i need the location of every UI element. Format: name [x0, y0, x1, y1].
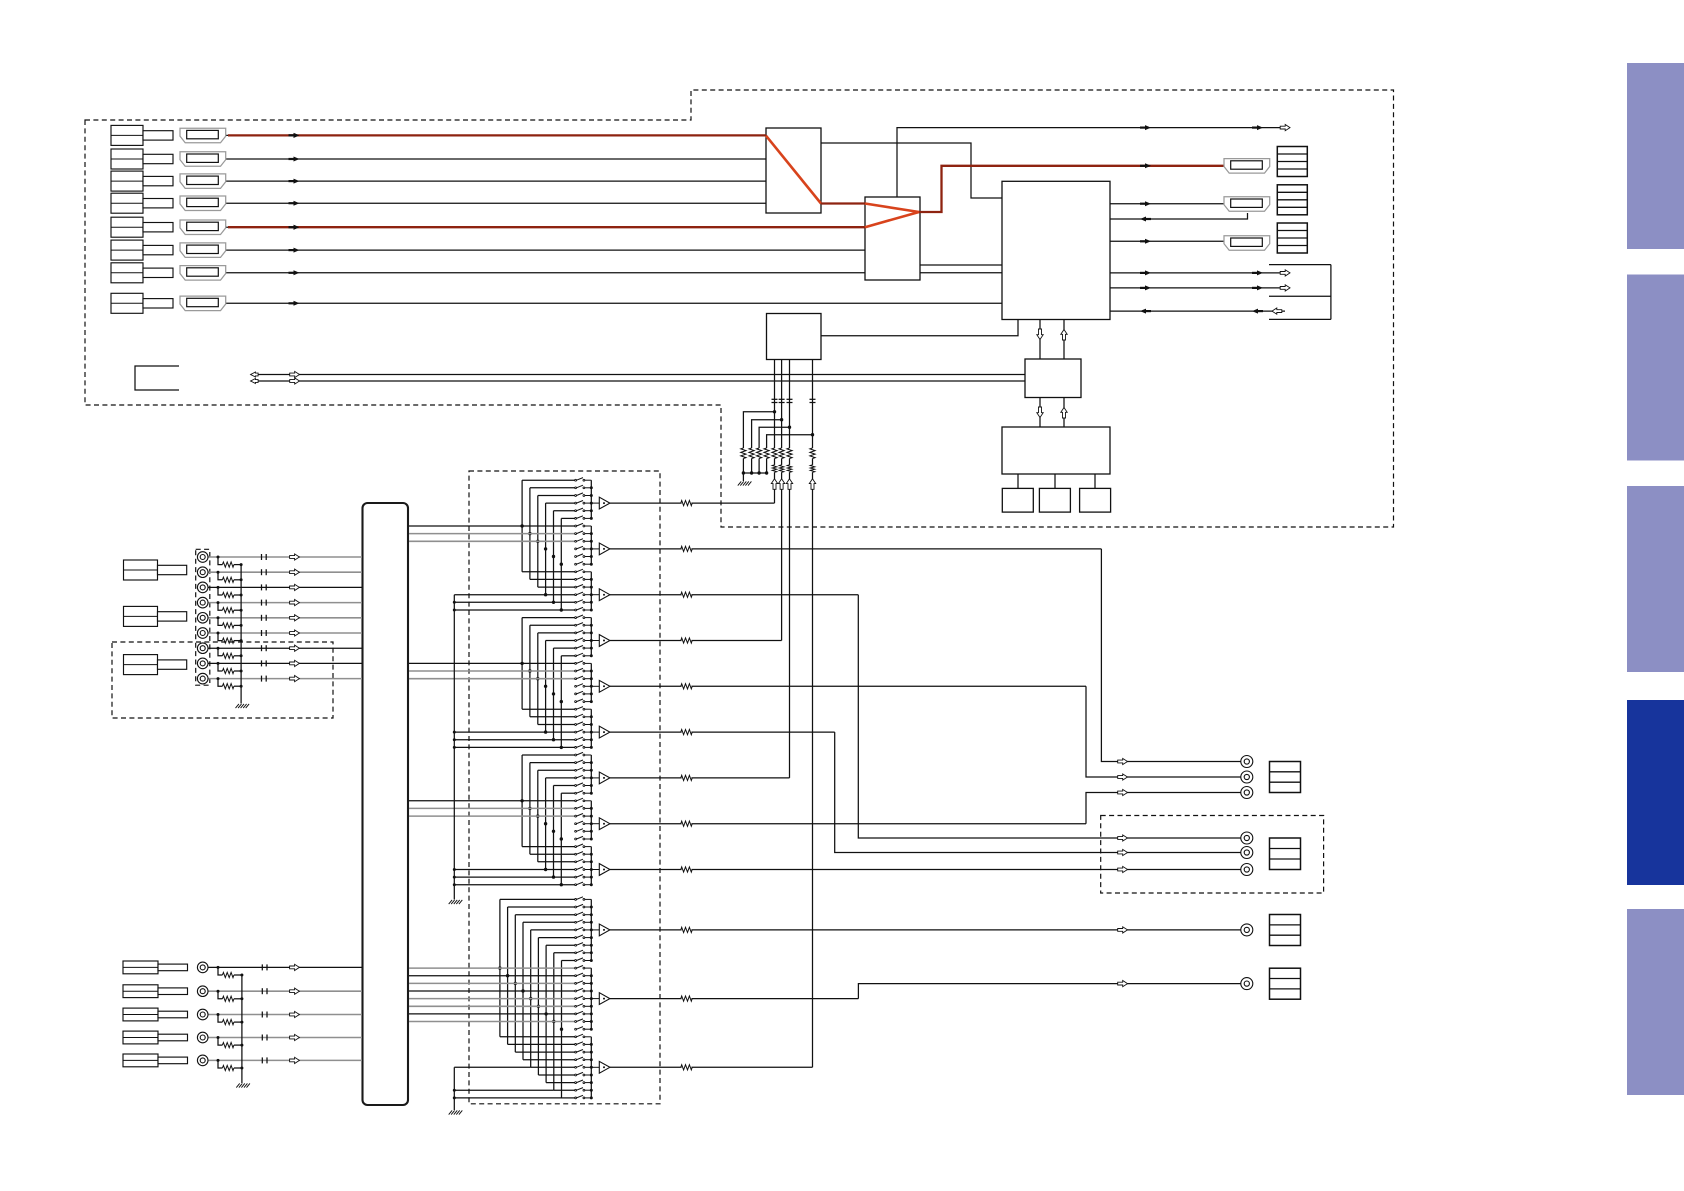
junction RCA 3: [217, 586, 220, 589]
arrow RCA aux input 5: [290, 1057, 300, 1063]
junction shunt bus aux 4: [240, 1044, 243, 1047]
arrow on HDMI input wire 2: [294, 157, 300, 162]
page tab 1: [1627, 63, 1684, 249]
coupling cap ticks RCA 3: [261, 584, 263, 590]
arrow RCA input 2: [290, 569, 300, 575]
label box HDMI out 1: [1277, 147, 1307, 177]
ground GND5: [449, 1110, 452, 1114]
pull-down resistor R11: [741, 448, 746, 459]
junction RCA 7: [217, 647, 220, 650]
arrow ctrl3 b: [1252, 309, 1258, 314]
arrow bus wire 2 open: [290, 378, 300, 384]
HDMI input jack 8: [180, 296, 226, 311]
wire trunk feed block2.1: [409, 662, 575, 664]
arrow output zone L: [1118, 835, 1128, 841]
wire RCA input 6 to trunk: [208, 632, 362, 634]
HDMI output jack 3: [1224, 236, 1270, 251]
shunt resistor RCA 8: [222, 668, 234, 673]
wire A5 route down: [1086, 686, 1241, 777]
shunt resistor RCA 2: [222, 577, 234, 582]
dashed enclosure aux input group: [112, 642, 333, 718]
hook wire lower col7: [545, 945, 547, 1082]
arrow on red input wire 5: [294, 225, 300, 230]
label box zone output: [1270, 838, 1301, 870]
wire RCA 2 shunt: [218, 572, 222, 580]
selector bus group 7: [590, 755, 592, 793]
shunt resistor RCA 9: [222, 684, 234, 689]
wire RCA 6 shunt: [218, 633, 222, 641]
HDMI input connector row 3 rear terminal: [111, 171, 143, 191]
RCA jack IN1: [197, 552, 208, 563]
wire trunk feed lower 4: [409, 990, 575, 992]
arrow RCA aux input 2: [290, 988, 300, 994]
HDMI input connector row 1 rear terminal: [111, 125, 143, 145]
rear terminal group B4: [123, 1031, 158, 1044]
wire U3 to HDMI out 2: [1110, 203, 1224, 205]
ground bus wire: [743, 472, 766, 474]
series resistor R32: [779, 465, 783, 472]
arrow up on buffer column 3: [786, 479, 792, 490]
selector bus group 2: [590, 526, 592, 564]
wire ground feed lower r27: [454, 1097, 561, 1099]
arrow RCA input 6: [290, 630, 300, 636]
buffer A7 output to column 3: [610, 777, 682, 779]
selector bus group 4: [590, 618, 592, 656]
wire RCA 7 shunt: [218, 648, 222, 656]
hook wire block3 col4: [545, 778, 547, 870]
block U4 level shifter: [1025, 359, 1081, 398]
RCA jack AUX1: [197, 962, 208, 973]
selector bus group 1: [590, 480, 592, 518]
block U2 HDMI switch B: [865, 197, 920, 280]
RCA jack IN5: [197, 613, 208, 624]
ground GND3: [236, 1083, 239, 1087]
wire HDMI input 2: [226, 158, 766, 160]
RCA output jack main 3: [1241, 787, 1253, 799]
buffer A9 output wire: [610, 869, 682, 871]
jumper tick pair on U6 pin 3: [787, 398, 793, 400]
wire HDMI input 1: [226, 134, 766, 136]
hook wire block1 col1: [521, 480, 523, 572]
junction RCA aux 2: [217, 990, 220, 993]
hook wire block2 col4: [545, 641, 547, 733]
junction shunt bus 3: [240, 594, 243, 597]
label box HDMI out 2: [1277, 185, 1307, 215]
HDMI input jack 2: [180, 152, 226, 167]
arrow output C: [1118, 789, 1128, 795]
wire A6 route down: [835, 732, 1241, 852]
coupling cap ticks RCA 8: [261, 660, 263, 666]
arrow RCA input 9: [290, 676, 300, 682]
ground GND1: [738, 481, 741, 485]
coupling cap ticks RCA 5: [261, 615, 263, 621]
buffer A2 output wire: [610, 548, 682, 550]
rear terminal group B1: [123, 961, 158, 974]
wire down to buffer column 2: [781, 472, 783, 640]
arrow ctrl3 open: [1272, 308, 1282, 314]
junction shunt bus 1: [240, 563, 243, 566]
red path diagonal B upper: [865, 204, 919, 213]
shunt resistor RCA aux 5: [222, 1065, 234, 1070]
junction shunt bus 9: [240, 685, 243, 688]
hook wire block3 col3: [537, 770, 539, 862]
arrow ctrl1 open: [1280, 270, 1290, 276]
shunt resistor RCA 5: [222, 623, 234, 628]
ground GND4: [449, 900, 452, 904]
wire ground feed block1.3: [454, 609, 575, 611]
coupling cap ticks aux 3: [261, 1012, 263, 1018]
hook wire block1 col3: [537, 496, 539, 588]
component X2: [1039, 488, 1070, 512]
arrow RCA input 4: [290, 600, 300, 606]
RCA output jack zone 3: [1241, 864, 1253, 876]
wire U3 control out 1: [1110, 272, 1285, 274]
arrow bus wire 1 open: [290, 371, 300, 377]
ground riser selector upper: [453, 595, 455, 900]
arrow bus wire 1 left tip: [251, 372, 259, 377]
shunt resistor RCA 6: [222, 638, 234, 643]
arrow RCA aux input 3: [290, 1011, 300, 1017]
arrow RCA aux input 4: [290, 1034, 300, 1040]
wire ground feed block3.2: [454, 876, 575, 878]
arrow up on buffer column 1: [771, 479, 777, 490]
signal trunk bundle: [363, 503, 409, 1105]
junction ground bus: [742, 471, 745, 474]
rear terminal group B2: [123, 985, 158, 998]
junction ground bus: [750, 471, 753, 474]
wire B2 route up: [858, 984, 1240, 999]
selector bus lower group 2: [590, 968, 592, 1029]
selector bus group 5: [590, 663, 592, 701]
wire HDMI repeater U2 top to DDC output: [897, 128, 1285, 197]
wire to pull-down resistor 3: [759, 427, 789, 448]
hook wire lower col2: [507, 907, 509, 1044]
arrow ctrl2 a: [1145, 285, 1151, 290]
RCA output jack zone 2: [1241, 847, 1253, 859]
arrow RCA input 8: [290, 660, 300, 666]
arrow RCA input 7: [290, 645, 300, 651]
wire U3 to U4 down-left: [1039, 320, 1041, 360]
buffer amp B3: [599, 1061, 610, 1073]
arrow ctrl1 b: [1257, 270, 1263, 275]
wire U6 to U3 bottom: [821, 320, 1018, 336]
shunt resistor RCA 3: [222, 592, 234, 597]
selector bus group 6: [590, 709, 592, 747]
selector switch contacts upper: [575, 478, 592, 886]
red path diagonal B lower: [865, 212, 919, 227]
red path HDMI5 to switch B: [228, 226, 865, 228]
wire RCA aux input 1 to trunk: [208, 966, 362, 968]
arrow output zone R: [1118, 849, 1128, 855]
wire box A to IC U3 (video): [821, 143, 1002, 198]
junction shunt bus 7: [240, 654, 243, 657]
wire down to buffer column 1: [774, 472, 776, 503]
pull-down resistor R12: [749, 448, 754, 459]
shunt resistor RCA 1: [222, 562, 234, 567]
junction RCA 1: [217, 556, 220, 559]
wire U3 control out 2: [1110, 287, 1285, 289]
wire ground feed block1.2: [454, 601, 575, 603]
junction on U6 pin 2: [780, 418, 783, 421]
wire ground feed lower r26: [454, 1089, 554, 1091]
junction shunt bus aux 1: [240, 974, 243, 977]
arrow up on buffer column 2: [778, 479, 784, 490]
hook wire block2 col5: [553, 648, 555, 740]
RCA jack IN9: [197, 673, 208, 684]
rear terminal group B5: [123, 1054, 158, 1067]
junction RCA 9: [217, 677, 220, 680]
rear terminal group 1: [124, 560, 158, 580]
block U5 HDMI receiver PHY: [1002, 427, 1110, 474]
series resistor R31: [772, 465, 776, 472]
wire trunk feed block1.1: [409, 525, 575, 527]
hook wire lower col6: [537, 938, 539, 1075]
buffer amp A3: [599, 589, 610, 601]
wire RCA input 4 to trunk: [208, 602, 362, 604]
wire trunk feed lower 8: [409, 1021, 575, 1023]
arrow on HDMI input wire 5: [294, 225, 300, 230]
arrow output zone C: [1118, 866, 1128, 872]
wire A8 route up: [1086, 793, 1241, 824]
buffer amp A8: [599, 818, 610, 830]
wire to pull-down resistor 2: [752, 420, 782, 448]
wire trunk feed block3.2: [409, 807, 575, 809]
wire RCA aux input 5 to trunk: [208, 1059, 362, 1061]
hook wire block1 col6: [560, 518, 562, 610]
wire U6 pin 2 vertical: [781, 360, 783, 449]
wire RCA 4 shunt: [218, 603, 222, 611]
wire RCA aux input 2 to trunk: [208, 990, 362, 992]
hook wire block3 col5: [553, 786, 555, 878]
wire U4 to U5 up: [1063, 398, 1065, 428]
wire U3 control in 3: [1110, 310, 1285, 312]
arrow on HDMI input wire 3: [294, 179, 300, 184]
wire A3 route down: [858, 595, 1240, 838]
wire trunk feed block1.3: [409, 540, 575, 542]
coupling cap ticks RCA 9: [261, 676, 263, 682]
wire A2 route down: [1101, 549, 1240, 762]
arrow U4-U5 down: [1037, 407, 1043, 418]
buffer A3 output wire: [610, 594, 682, 596]
buffer amp A5: [599, 680, 610, 692]
coupling cap ticks RCA 2: [261, 569, 263, 575]
wire down to buffer column 4: [812, 472, 814, 1067]
wire down to buffer column 3: [789, 472, 791, 778]
coupling cap ticks aux 1: [261, 964, 263, 970]
wire U3 to HDMI out 3: [1110, 240, 1224, 242]
shunt resistor RCA aux 3: [222, 1020, 234, 1025]
junction RCA 8: [217, 662, 220, 665]
selector bus group 3: [590, 572, 592, 610]
wire RCA 8 shunt: [218, 663, 222, 671]
series resistor R33: [787, 465, 791, 472]
buffer amp A7: [599, 772, 610, 784]
wire HDMI input 4: [226, 202, 766, 204]
junction shunt bus 2: [240, 578, 243, 581]
wire trunk feed lower 7: [409, 1013, 575, 1015]
buffer amp A2: [599, 543, 610, 555]
buffer amp A1: [599, 497, 610, 509]
arrow ctrl1 a: [1145, 270, 1151, 275]
wire RCA aux input 3 to trunk: [208, 1014, 362, 1016]
coupling cap ticks aux 5: [261, 1057, 263, 1063]
buffer A8 output wire: [610, 823, 682, 825]
wire trunk feed block2.2: [409, 670, 575, 672]
wire RCA 9 shunt: [218, 679, 222, 687]
HDMI input jack 4: [180, 196, 226, 211]
wire trunk feed block3.1: [409, 800, 575, 802]
hook wire block3 col2: [529, 763, 531, 855]
wire RCA input 1 to trunk: [208, 556, 362, 558]
red path A to B: [821, 202, 865, 204]
buffer A1 output to column 1: [610, 502, 682, 504]
wire HDMI out 2 return: [1110, 213, 1248, 219]
coupling cap ticks aux 2: [261, 988, 263, 994]
arrow HDMI2 return: [1140, 217, 1146, 222]
wire HDMI input 5: [226, 226, 865, 228]
wire U6 pin 4 vertical: [812, 360, 814, 449]
page tab 3: [1627, 486, 1684, 672]
component X1: [1002, 488, 1033, 512]
hook wire block1 col2: [529, 488, 531, 580]
rear terminal group 3: [124, 655, 158, 675]
HDMI input connector row 5 rear terminal: [111, 217, 143, 237]
page tab 2: [1627, 275, 1684, 461]
RCA jack IN2: [197, 567, 208, 578]
wire RCA input 5 to trunk: [208, 617, 362, 619]
arrow U3-U4 down: [1037, 329, 1043, 340]
junction shunt bus 5: [240, 624, 243, 627]
coupling cap ticks RCA 7: [261, 645, 263, 651]
buffer B3 output to column 4: [610, 1066, 682, 1068]
wire RCA aux 2 shunt: [218, 991, 222, 999]
RCA output jack mono 1: [1241, 924, 1253, 936]
wire RCA input 9 to trunk: [208, 678, 362, 680]
junction shunt bus 4: [240, 609, 243, 612]
arrow output L: [1118, 758, 1128, 764]
buffer B1 output wire: [610, 929, 682, 931]
wire RCA 5 shunt: [218, 618, 222, 626]
red path B to HDMI out: [919, 166, 1224, 212]
wire HDMI input 7: [226, 272, 1002, 274]
shunt resistor RCA aux 1: [222, 972, 234, 977]
dashed enclosure RCA jack column: [196, 549, 210, 685]
wire RCA aux 3 shunt: [218, 1015, 222, 1023]
HDMI output jack 2: [1224, 197, 1270, 212]
junction RCA 5: [217, 616, 220, 619]
RCA output jack zone 1: [1241, 832, 1253, 844]
RCA jack AUX2: [197, 986, 208, 997]
wire RCA aux 4 shunt: [218, 1038, 222, 1046]
wire ground feed block1.1: [454, 594, 575, 596]
RCA jack AUX3: [197, 1009, 208, 1020]
junction RCA aux 1: [217, 966, 220, 969]
buffer A4 output to column 2: [610, 640, 682, 642]
hook wire lower col4: [522, 922, 524, 1059]
wire ground feed block3.1: [454, 869, 575, 871]
RCA jack IN8: [197, 658, 208, 669]
arrow ctrl2 open: [1280, 285, 1290, 291]
arrow RCA input 1: [290, 554, 300, 560]
page tab 5: [1627, 909, 1684, 1095]
wire to pull-down resistor 1: [743, 412, 774, 448]
wire RCA 3 shunt: [218, 587, 222, 595]
wire RCA input 8 to trunk: [208, 662, 362, 664]
wire ground feed block3.3: [454, 884, 575, 886]
pull-down resistor R13: [757, 448, 762, 459]
arrow DDC open tip: [1280, 125, 1290, 131]
arrow RCA aux input 1: [290, 964, 300, 970]
label box mono 2: [1270, 968, 1301, 999]
pull-down resistor R14: [764, 448, 769, 459]
wire RCA aux 1 shunt: [218, 967, 222, 975]
label box main output: [1270, 762, 1301, 793]
junction shunt bus 6: [240, 639, 243, 642]
arrow on HDMI input wire 1: [294, 133, 300, 138]
RCA jack AUX4: [197, 1032, 208, 1043]
wire U6 pin 1 vertical: [774, 360, 776, 449]
label box HDMI out 3: [1277, 223, 1307, 253]
wire ground feed lower r23: [454, 1066, 530, 1068]
buffer amp A4: [599, 635, 610, 647]
wire trunk feed lower 3: [409, 982, 575, 984]
arrow on HDMI input wire 4: [294, 201, 300, 206]
wire trunk feed lower 2: [409, 975, 575, 977]
wire RCA aux input 4 to trunk: [208, 1037, 362, 1039]
buffer amp A6: [599, 726, 610, 738]
junction shunt bus aux 2: [240, 997, 243, 1000]
label box mono 1: [1270, 915, 1301, 946]
wire U3 to U4 up-right: [1063, 320, 1065, 360]
junction RCA 2: [217, 571, 220, 574]
junction RCA aux 3: [217, 1013, 220, 1016]
selector bus lower group 1: [590, 899, 592, 960]
shunt resistor RCA aux 4: [222, 1043, 234, 1048]
arrow output sub 1: [1118, 927, 1128, 933]
block U3 HDMI transmitter: [1002, 181, 1110, 319]
wire HDMI input 8: [226, 302, 1002, 304]
shunt resistor RCA 7: [222, 653, 234, 658]
arrow ctrl2 b: [1257, 285, 1263, 290]
wire HDMI input 6: [226, 249, 865, 251]
arrow U3-HDMI3: [1145, 239, 1151, 244]
HDMI input jack 5: [180, 220, 226, 235]
wire ground feed block2.1: [454, 731, 575, 733]
open header connector: [135, 366, 179, 390]
arrow on red input wire 1: [294, 133, 300, 138]
shunt resistor RCA aux 2: [222, 996, 234, 1001]
wire U6 pin 3 vertical: [789, 360, 791, 449]
HDMI input connector row 6 rear terminal: [111, 240, 143, 260]
coupling cap ticks aux 4: [261, 1035, 263, 1041]
wire RCA input 2 to trunk: [208, 571, 362, 573]
wire ground feed block2.3: [454, 746, 575, 748]
jumper tick pair on U6 pin 1: [772, 398, 778, 400]
RCA jack IN6: [197, 628, 208, 639]
wire trunk feed block1.2: [409, 533, 575, 535]
page tab 4 (active): [1627, 700, 1684, 885]
series resistor R23: [787, 448, 792, 459]
junction RCA aux 4: [217, 1036, 220, 1039]
buffer A5 output wire: [610, 685, 682, 687]
HDMI input connector row 8 rear terminal: [111, 293, 143, 313]
HDMI input connector row 7 rear terminal: [111, 263, 143, 283]
dashed enclosure HDMI input/output section: [85, 90, 1394, 527]
hook wire lower col1: [499, 899, 501, 1036]
series resistor R22: [779, 448, 784, 459]
block U6 EDID EEPROM: [767, 314, 822, 360]
block U1 HDMI switch A: [766, 128, 821, 213]
